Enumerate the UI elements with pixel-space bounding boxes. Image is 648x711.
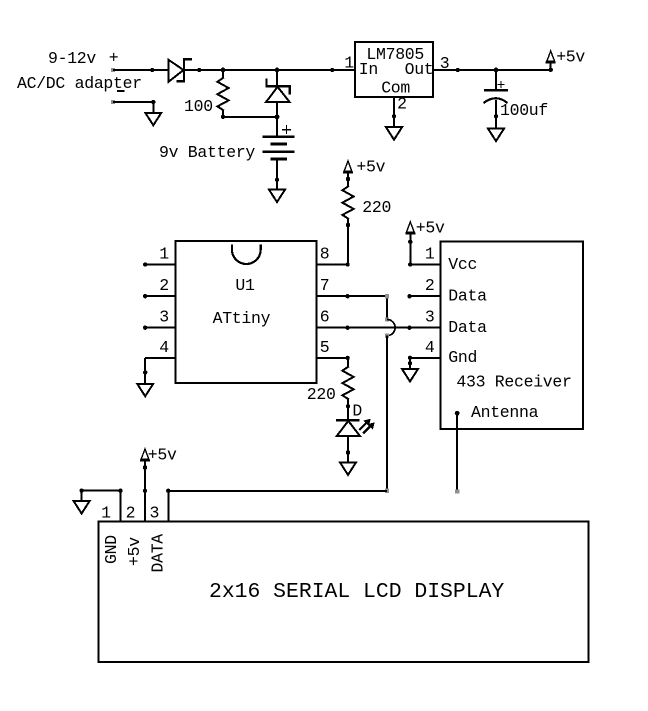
svg-text:2: 2 bbox=[126, 504, 136, 523]
svg-text:Gnd: Gnd bbox=[448, 348, 477, 367]
ground LED bbox=[340, 450, 356, 475]
ground adapter bbox=[145, 100, 161, 126]
junction Z1 top bbox=[275, 68, 280, 73]
pin 5 U1 bbox=[316, 338, 350, 360]
pin 3 U1 bbox=[143, 308, 175, 330]
node VR1 pin 1 bbox=[330, 68, 334, 72]
power +5v above R2 bbox=[343, 158, 386, 187]
node diode anode bbox=[150, 68, 154, 72]
svg-text:1: 1 bbox=[425, 245, 435, 264]
pin 1 U1 bbox=[143, 245, 175, 267]
pin 2 LCD1 bbox=[126, 488, 148, 522]
svg-text:8: 8 bbox=[320, 245, 330, 264]
power +5v receiver bbox=[405, 218, 445, 264]
ground LCD bbox=[74, 501, 90, 514]
svg-text:9v Battery: 9v Battery bbox=[159, 143, 255, 162]
svg-text:1: 1 bbox=[344, 54, 354, 73]
module LCD1 bbox=[98, 521, 588, 662]
svg-text:Data: Data bbox=[448, 287, 487, 306]
svg-text:100: 100 bbox=[184, 97, 213, 116]
svg-text:2: 2 bbox=[397, 95, 407, 114]
label AC/DC adapter bbox=[17, 74, 142, 93]
ground U1 pin 4 bbox=[137, 370, 153, 396]
svg-text:433 Receiver: 433 Receiver bbox=[456, 373, 571, 392]
wire adapter plus to diode bbox=[111, 68, 169, 72]
svg-text:220: 220 bbox=[362, 198, 391, 217]
svg-text:D: D bbox=[352, 402, 362, 421]
svg-text:+5v: +5v bbox=[356, 158, 385, 177]
svg-text:+5v: +5v bbox=[416, 218, 445, 237]
svg-text:AC/DC adapter: AC/DC adapter bbox=[17, 74, 142, 93]
wire data vertical from pin7 bbox=[385, 294, 389, 322]
resistor R2 220 bbox=[342, 187, 353, 265]
svg-text:Data: Data bbox=[448, 318, 487, 337]
wire U1 pin 4 to ground bbox=[144, 358, 146, 384]
svg-text:Antenna: Antenna bbox=[471, 403, 539, 422]
resistor R1 100 bbox=[217, 70, 228, 117]
wire R1 bottom to Z1 bottom bbox=[221, 115, 277, 119]
svg-text:+5v: +5v bbox=[556, 48, 585, 67]
svg-text:DATA: DATA bbox=[149, 534, 168, 573]
power +5v top right bbox=[546, 48, 586, 73]
svg-text:220: 220 bbox=[307, 385, 336, 404]
svg-text:+: + bbox=[109, 49, 119, 68]
junction C1 top bbox=[494, 68, 499, 73]
svg-text:5: 5 bbox=[320, 338, 330, 357]
capacitor C1 100uf bbox=[484, 70, 509, 129]
wire U1 pin5 to R3 bbox=[347, 358, 349, 367]
svg-text:2: 2 bbox=[159, 276, 169, 295]
wire LCD pin3 data bbox=[166, 489, 387, 493]
svg-text:2: 2 bbox=[425, 276, 435, 295]
svg-text:9-12v: 9-12v bbox=[48, 49, 96, 68]
svg-text:GND: GND bbox=[102, 535, 121, 564]
pin 2 U1 bbox=[143, 276, 175, 298]
pin 4 U1 bbox=[145, 338, 175, 358]
ground battery bbox=[269, 178, 285, 202]
node diode cathode bbox=[197, 68, 201, 72]
regulator VR1 LM7805 bbox=[355, 42, 433, 98]
pin 1 RX1 bbox=[408, 245, 440, 267]
wire antenna bbox=[455, 411, 460, 494]
power +5v LCD bbox=[140, 446, 177, 491]
diode D1 schottky bbox=[168, 59, 191, 82]
svg-text:Out: Out bbox=[405, 60, 434, 79]
svg-text:1: 1 bbox=[159, 245, 169, 264]
pin 3 LCD1 bbox=[149, 491, 168, 523]
svg-text:In: In bbox=[359, 60, 378, 79]
wire RX1 pin4 to ground bbox=[409, 358, 411, 369]
wire adapter minus bbox=[111, 100, 154, 104]
wire VR1 com bbox=[392, 97, 396, 127]
svg-text:U1: U1 bbox=[235, 276, 255, 295]
pin 1 LCD1 bbox=[101, 488, 123, 522]
ground VR1 bbox=[386, 127, 402, 140]
IC U1 ATtiny bbox=[175, 241, 316, 383]
svg-text:3: 3 bbox=[159, 308, 169, 327]
svg-text:2x16 SERIAL LCD DISPLAY: 2x16 SERIAL LCD DISPLAY bbox=[209, 580, 504, 604]
svg-text:100uf: 100uf bbox=[500, 101, 548, 120]
svg-text:6: 6 bbox=[320, 308, 330, 327]
svg-text:ATtiny: ATtiny bbox=[213, 309, 271, 328]
pin 2 RX1 bbox=[407, 276, 440, 298]
svg-text:3: 3 bbox=[149, 504, 159, 523]
pin 6 U1 bbox=[316, 308, 440, 330]
wire LCD pin1 to ground bbox=[79, 488, 120, 501]
svg-text:4: 4 bbox=[159, 338, 169, 357]
svg-text:+5v: +5v bbox=[148, 446, 177, 465]
svg-text:3: 3 bbox=[425, 308, 435, 327]
wire R2 to U1 pin 8 bbox=[316, 262, 350, 266]
ground C1 bbox=[488, 114, 504, 141]
ground RX1 bbox=[402, 361, 418, 381]
module RX1 433 Receiver bbox=[441, 241, 583, 429]
wire data vertical to LCD bbox=[385, 334, 389, 494]
wire hop over pin6 wire bbox=[387, 320, 395, 336]
wire VR1 out to +5v bbox=[433, 68, 551, 72]
LED D bbox=[336, 420, 374, 463]
svg-text:7: 7 bbox=[320, 276, 330, 295]
junction Z1 bottom / battery plus bbox=[275, 114, 280, 119]
resistor R3 220 bbox=[342, 367, 353, 421]
svg-text:+5v: +5v bbox=[125, 537, 144, 566]
svg-text:Vcc: Vcc bbox=[448, 255, 477, 274]
zener Z1 bbox=[266, 70, 290, 117]
battery BT1 9v bbox=[263, 117, 295, 190]
junction R1 top bbox=[221, 68, 226, 73]
svg-text:4: 4 bbox=[425, 338, 435, 357]
wire diode to regulator bbox=[184, 69, 355, 71]
svg-text:1: 1 bbox=[101, 504, 111, 523]
pin 7 U1 bbox=[316, 276, 387, 298]
label 9-12v bbox=[48, 49, 118, 69]
pin 4 RX1 bbox=[408, 338, 441, 360]
